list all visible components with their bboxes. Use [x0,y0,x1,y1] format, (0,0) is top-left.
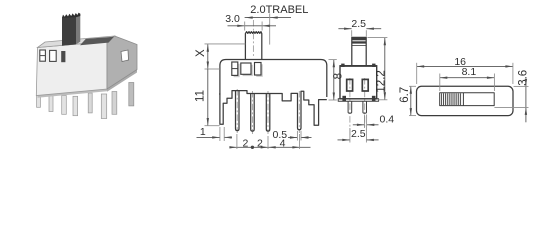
pin 5 back row (perspective) [88,93,92,113]
actuator knob front face (perspective) [62,16,76,46]
svg-text:8.1: 8.1 [462,66,477,78]
front face mark 2 [50,50,57,61]
body outline (front view) [220,60,327,98]
2.5 top extension lines [351,30,353,36]
body top edge (side view, thick) [340,65,377,67]
2-2-4 extension segments [236,134,238,149]
body (side view) [340,66,377,99]
marking rect 3 [255,63,262,76]
pin 3 (perspective) [62,96,67,115]
dim 0.5 line [288,137,297,139]
pin 1 (front view) [236,91,240,131]
knob right edge (top view) [462,93,464,106]
dim 6.7 line [410,86,412,115]
dim X line [207,44,209,69]
marking shadow 2 [243,65,253,76]
pin left (side view) [348,101,352,113]
marking rect 2 [241,63,251,74]
terminal left (side view) [347,79,353,91]
svg-text:0.4: 0.4 [379,113,394,125]
bracket foot right [372,96,376,101]
svg-text:2.0TRABEL: 2.0TRABEL [250,4,308,16]
dim 8.1 line [440,77,495,79]
svg-text:12.2: 12.2 [376,70,388,92]
bracket foot left [342,96,346,101]
6.7 extension lines [409,85,416,87]
dim 2.0 travel line [245,17,291,19]
dim 12.2 line [384,38,386,100]
marking shadow 1 [234,64,240,77]
knob width extension lines [244,22,246,31]
pin 2 centerline [251,91,253,134]
pin 4 centerline [298,91,300,133]
12.2 extension lines [368,37,388,39]
pin 2 (front view) [251,94,255,132]
top bracket tab left (side view) [341,64,344,67]
body (top view) [417,86,514,115]
pin 3 (front view) [266,94,270,132]
slot (top view) [440,93,495,106]
pin centerline right (side view) [364,78,366,128]
pin 6 (perspective) [101,94,106,119]
front face mark 1 [40,50,46,61]
dim 11 line [207,69,209,126]
pin 4 (perspective) [73,96,78,115]
front face mark 3 [61,51,65,62]
svg-text:11: 11 [195,90,207,102]
16 extension lines [416,63,418,84]
top bracket tab right (side view) [372,64,375,67]
pin 7 (perspective) [112,92,117,115]
3.6 extension lines [514,85,529,87]
side bracket hole [121,50,129,62]
actuator knob serrated top (perspective) [62,13,80,18]
pin centerline left (side view) [349,78,351,135]
actuator serration band (side view) [352,37,366,40]
travel extension line [269,14,271,45]
11 bottom extension line [205,125,220,127]
base plate (side view) [338,99,378,101]
actuator shaft (side view) [352,37,366,65]
svg-text:X: X [195,49,207,57]
svg-text:8: 8 [333,73,345,79]
svg-text:3.6: 3.6 [518,70,530,86]
svg-text:1: 1 [200,126,206,138]
pin 3 centerline [267,91,269,134]
2.5 bottom extension lines [349,128,351,143]
knob hatching (top view) [442,93,461,105]
8 extension lines [329,59,337,61]
dim 1 line [197,136,220,138]
dim 2.5 bottom line [338,139,350,141]
0.4 extension lines [364,115,366,129]
terminal right (side view) [362,79,368,91]
pin left leg (perspective) [37,93,41,107]
X bottom extension line [205,68,220,70]
svg-text:2.5: 2.5 [351,128,366,140]
body side face [107,36,137,89]
X top extension line [205,43,246,45]
dim 3.6 line [525,86,527,122]
top face slot (dark) [80,37,114,45]
1 extension lines [219,127,221,141]
dim 16 line [417,65,513,67]
pin 1 centerline [236,89,238,133]
svg-text:6.7: 6.7 [399,87,411,103]
dim 2.5 top line [338,28,351,30]
pin right (side view) [363,101,367,113]
body front face [36,42,107,96]
body underside strip [38,89,108,98]
body bottom contour with legs [220,91,327,130]
marking shadow 3 [256,64,263,77]
actuator knob side face (perspective) [76,14,80,45]
actuator centerline [252,20,254,58]
dim line 2-2-4 [230,146,311,148]
actuator knob (front view) [245,32,261,60]
svg-text:0.5: 0.5 [272,129,287,141]
body right underside [107,70,137,92]
8.1 extension lines [439,74,441,92]
dim 8 line [333,60,335,100]
svg-text:2.5: 2.5 [351,18,366,30]
0.5 extension lines [296,131,298,141]
dim 0.4 line [353,124,365,126]
svg-text:3.0: 3.0 [225,13,240,25]
marking rect 1 [232,62,238,75]
dim 3.0 line [228,25,277,27]
pin right leg (perspective) [129,83,134,106]
pin 2 (perspective) [49,95,53,112]
body top face [38,36,115,48]
